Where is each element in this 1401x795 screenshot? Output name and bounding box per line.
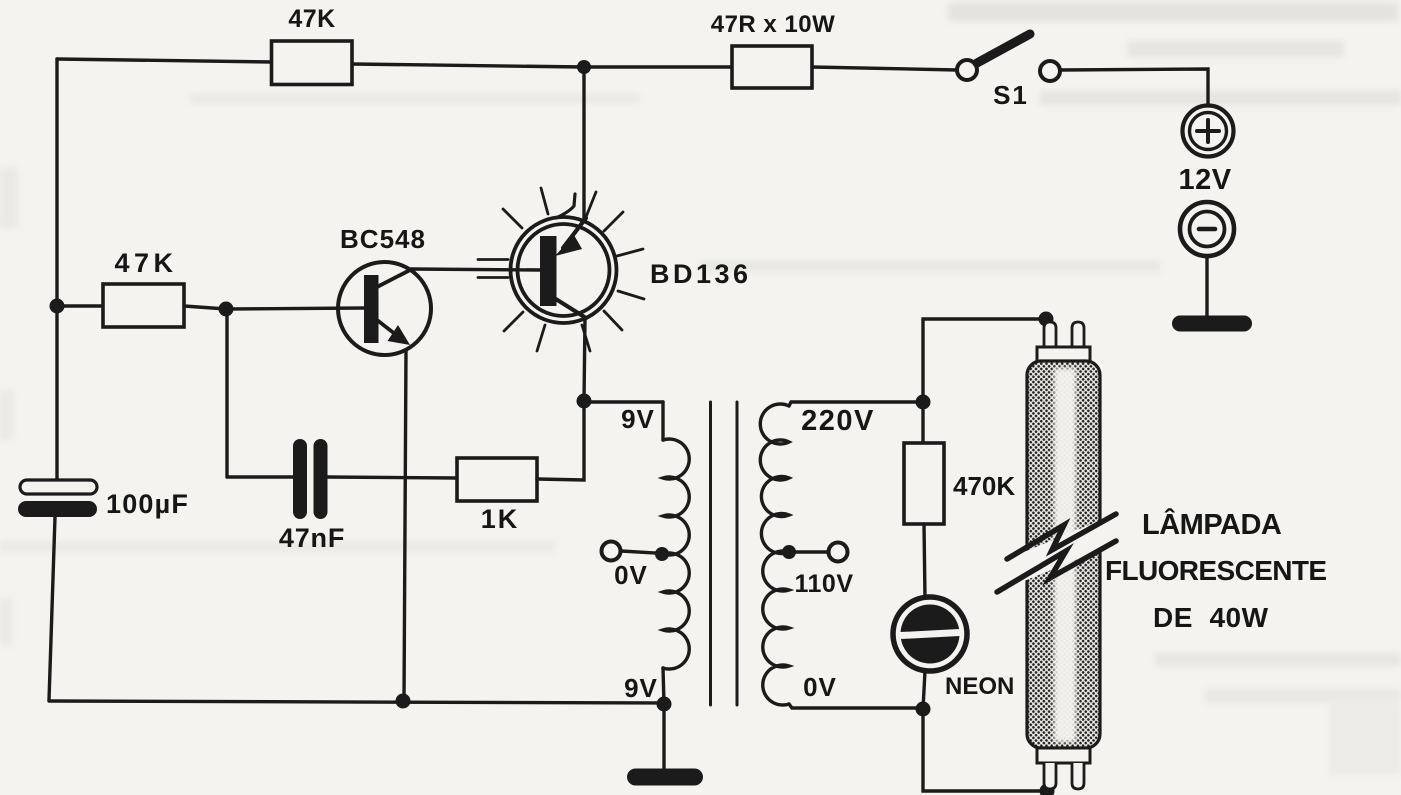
node tap secondary (782, 545, 796, 559)
wire top rail: node A to R2 (584, 65, 732, 68)
primary 0V tap terminal (602, 542, 621, 561)
wire top rail left: corner to R1 (57, 59, 272, 62)
wire: 0V tap (621, 551, 655, 553)
wire: 47nF rail (node C leg to 1K) (227, 475, 293, 478)
wire: 110V tap (789, 550, 828, 553)
svg-text:47R x 10W: 47R x 10W (711, 11, 836, 38)
wire: 100uF down to bottom rail corner (49, 517, 55, 700)
top pins (1044, 322, 1056, 347)
svg-text:9V: 9V (624, 673, 658, 703)
bottom pins (1044, 763, 1056, 789)
wire: S1 to battery (1060, 69, 1208, 106)
fluorescent lamp (997, 322, 1122, 789)
node I (0V secondary junction) (916, 702, 931, 717)
transistor BD136 (478, 188, 644, 351)
svg-text:NEON: NEON (945, 673, 1014, 700)
wire: BD136 collector down to node D (584, 318, 585, 401)
bottom cap (1037, 748, 1090, 763)
tube body (1027, 361, 1100, 748)
node C (base junction) (219, 302, 234, 317)
wire top rail: R1 to node A (352, 64, 584, 67)
break bolt lower (997, 541, 1116, 592)
svg-text:BC548: BC548 (340, 224, 426, 254)
wire: left rail to 47K left (57, 304, 103, 307)
svg-text:S1: S1 (993, 80, 1029, 110)
wire: node F to ground (662, 704, 665, 770)
capacitor 47nF (293, 439, 328, 519)
ground (transformer) (627, 769, 703, 786)
node A (top rail / BD136 emitter) (577, 60, 591, 74)
svg-text:0V: 0V (614, 560, 648, 590)
resistor 47K (left) (103, 284, 184, 327)
top cap (1037, 347, 1090, 362)
node D (collector junction) (577, 394, 592, 409)
resistor 47R x 10W (732, 46, 812, 88)
node tap primary (655, 547, 669, 561)
node B (left rail / 47K) (50, 299, 65, 314)
wire: node G up and right to lamp top (923, 319, 1046, 402)
svg-text:12V: 12V (1178, 164, 1231, 196)
break bolt upper (1007, 514, 1116, 559)
svg-text:DE 40W: DE 40W (1153, 602, 1269, 633)
wire: 1K right to node D (537, 401, 584, 480)
resistor 1K (457, 458, 537, 501)
svg-text:47K: 47K (288, 5, 335, 33)
svg-text:FLUORESCENTE: FLUORESCENTE (1105, 555, 1326, 586)
node F (primary bottom / rail end) (657, 697, 672, 712)
wire: node G down to 470K (921, 402, 924, 443)
collector lead (bottom) (551, 296, 586, 318)
break gap (1001, 526, 1122, 576)
wire left rail top: corner down to C1 (55, 59, 58, 481)
wire: node D to primary top (584, 400, 663, 403)
heatsink hook at top (556, 194, 575, 218)
highlight stripe (1054, 368, 1076, 742)
emitter lead (top) with arrow into base (563, 218, 586, 248)
svg-text:0V: 0V (803, 672, 837, 702)
svg-text:47nF: 47nF (279, 523, 345, 553)
secondary 110V tap terminal (829, 543, 848, 562)
wire: node C down to 47nF rail (225, 309, 228, 477)
svg-text:1K: 1K (481, 504, 520, 534)
wire: 47K to node C (184, 306, 226, 309)
heatsink rays (478, 188, 644, 351)
svg-text:BD136: BD136 (650, 259, 752, 289)
node H (lamp top junction) (1039, 312, 1054, 327)
svg-text:LÂMPADA: LÂMPADA (1142, 507, 1282, 541)
wire: battery negative to ground (1205, 256, 1208, 317)
svg-text:47K: 47K (114, 248, 177, 278)
neon lamp (893, 597, 967, 671)
node G (220V junction) (916, 395, 931, 410)
transformer primary winding 9V-0V-9V (663, 402, 689, 704)
svg-text:9V: 9V (621, 404, 655, 434)
wire bottom rail (49, 701, 664, 703)
svg-text:220V: 220V (801, 405, 875, 437)
svg-text:110V: 110V (794, 570, 853, 598)
battery 12V positive terminal (1183, 106, 1234, 157)
wire: neon to node I (923, 671, 925, 709)
wire: BC548 collector to BD136 base (411, 269, 541, 270)
svg-text:470K: 470K (953, 471, 1015, 501)
transformer secondary winding 220V-110V-0V (760, 402, 923, 708)
battery 12V negative terminal (1180, 202, 1234, 256)
transistor BC548 (338, 262, 431, 355)
node J (lamp bottom junction) (1040, 784, 1055, 795)
resistor 47K (top) (272, 41, 353, 85)
wire: node I down and right to lamp bottom (923, 709, 1047, 791)
capacitor 100uF (18, 480, 97, 517)
node E (bottom rail / emitter) (396, 694, 411, 709)
wire: node C to BC548 base (226, 308, 364, 309)
wire: 47nF to 1K (327, 477, 457, 478)
switch S1 (957, 34, 1060, 110)
resistor 470K (904, 443, 944, 524)
wire: BC548 emitter down to bottom rail (404, 350, 406, 701)
transformer core (711, 402, 738, 705)
ground (battery) (1172, 316, 1252, 332)
wire: BD136 emitter up to node A (582, 71, 585, 218)
wire: 470K to neon (924, 524, 925, 599)
svg-text:100µF: 100µF (106, 489, 189, 519)
wire: R2 to switch S1 (812, 67, 957, 70)
